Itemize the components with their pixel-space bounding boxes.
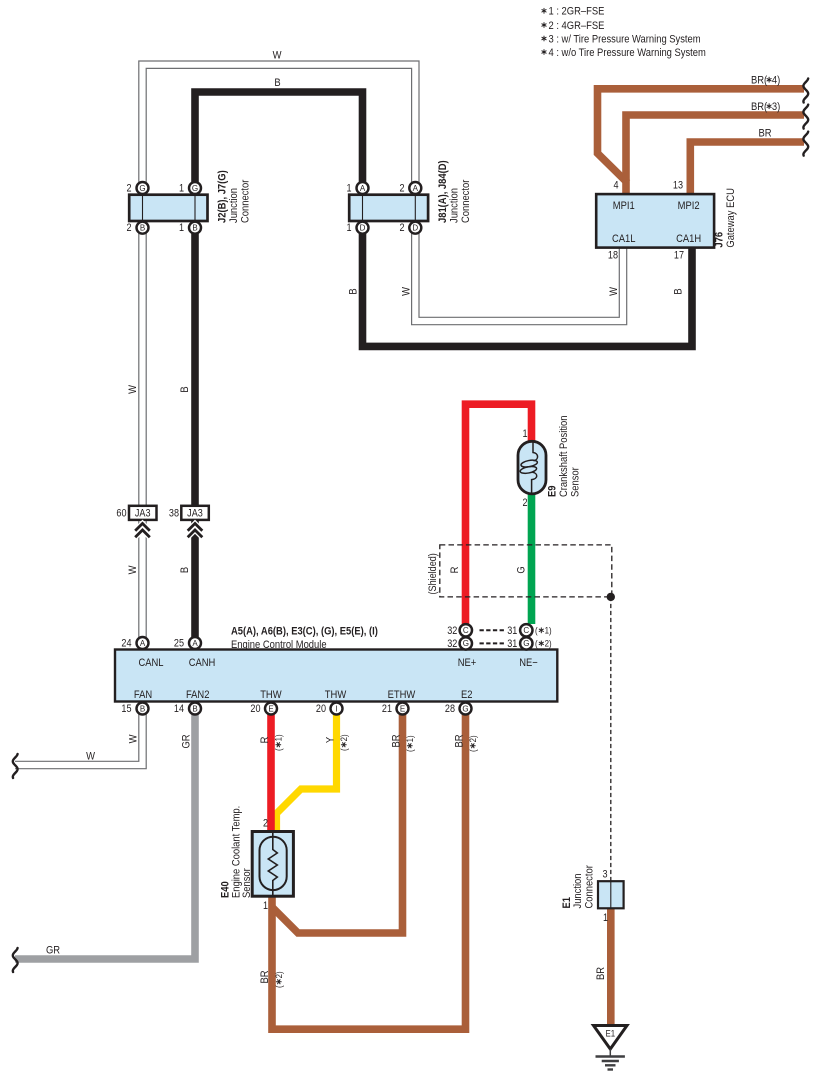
wire R (*1): ECM THW 20(E) down to E40 pin 2 xyxy=(267,711,275,833)
svg-text:B: B xyxy=(192,224,197,233)
junction connector J2(B), J7(G) box xyxy=(129,195,207,221)
svg-text:CA1H: CA1H xyxy=(676,233,701,245)
svg-text:W: W xyxy=(128,734,140,743)
svg-text:W: W xyxy=(127,565,139,574)
svg-text:3): 3) xyxy=(772,101,780,113)
svg-text:BR: BR xyxy=(391,734,403,747)
legend note 4 xyxy=(542,47,706,59)
break squiggle on BR xyxy=(803,132,808,156)
svg-text:Sensor: Sensor xyxy=(570,467,582,497)
svg-text:ETHW: ETHW xyxy=(388,689,416,701)
pin 2(G) J2 xyxy=(137,182,149,194)
svg-text:21: 21 xyxy=(382,703,393,715)
svg-text:2): 2) xyxy=(545,638,552,649)
svg-text:GR: GR xyxy=(181,734,193,748)
svg-text:2 : 4GR–FSE: 2 : 4GR–FSE xyxy=(549,20,605,32)
svg-text:3 : w/ Tire Pressure Warning S: 3 : w/ Tire Pressure Warning System xyxy=(549,34,701,46)
break squiggle on BR(*4) xyxy=(803,79,808,103)
svg-text:2): 2) xyxy=(338,734,349,741)
svg-text:4): 4) xyxy=(772,75,780,87)
label BR(*4) xyxy=(751,75,780,87)
svg-text:B: B xyxy=(348,288,360,294)
chevron on W wire below JA3 60 xyxy=(135,524,150,538)
svg-text:B: B xyxy=(673,288,685,294)
svg-text:Connector: Connector xyxy=(460,179,472,223)
svg-text:1): 1) xyxy=(273,734,284,741)
svg-text:BR(: BR( xyxy=(751,101,768,113)
svg-text:(: ( xyxy=(535,638,538,649)
svg-text:NE−: NE− xyxy=(519,657,538,669)
legend note 2 xyxy=(542,20,605,32)
svg-text:2: 2 xyxy=(399,222,404,234)
svg-text:13: 13 xyxy=(673,180,684,192)
svg-text:B: B xyxy=(274,77,280,89)
Gateway ECU J76 box xyxy=(596,194,714,248)
svg-text:1): 1) xyxy=(404,735,415,742)
svg-text:G: G xyxy=(192,184,198,193)
wire Y (*2): ECM THW 20(I) down to E40 pin 2 xyxy=(277,711,337,833)
svg-text:31: 31 xyxy=(507,638,518,650)
svg-text:W: W xyxy=(127,385,139,394)
svg-text:G: G xyxy=(516,566,528,573)
svg-text:24: 24 xyxy=(121,638,132,650)
svg-text:15: 15 xyxy=(121,703,132,715)
svg-text:28: 28 xyxy=(445,703,456,715)
break squiggle on GR left xyxy=(13,948,18,972)
pin 14(B) ECM FAN2 xyxy=(189,703,201,715)
svg-text:(: ( xyxy=(535,625,538,636)
dashes between NE pins row 2 xyxy=(480,642,505,644)
svg-text:E: E xyxy=(268,705,273,714)
shield junction dot xyxy=(607,593,615,601)
svg-text:(: ( xyxy=(467,749,478,752)
svg-text:R: R xyxy=(259,737,271,744)
chevron on B wire below JA3 38 xyxy=(188,524,203,538)
svg-text:2: 2 xyxy=(399,183,404,195)
svg-text:GR: GR xyxy=(46,945,60,957)
pin 31(C) ECM NE- xyxy=(520,624,532,636)
wire W inner white pass xyxy=(143,65,624,321)
svg-text:(Shielded): (Shielded) xyxy=(427,553,439,594)
svg-text:18: 18 xyxy=(608,250,619,262)
svg-text:J2(B), J7(G): J2(B), J7(G) xyxy=(217,170,229,223)
svg-text:1 : 2GR–FSE: 1 : 2GR–FSE xyxy=(549,6,605,18)
svg-text:E1: E1 xyxy=(605,1028,615,1039)
svg-text:Gateway ECU: Gateway ECU xyxy=(725,188,737,248)
svg-text:B: B xyxy=(179,386,191,392)
svg-text:CANH: CANH xyxy=(189,657,216,669)
wire W: J2 2(G) up over to J81 2(A) down to Gateway ECU CA1L (outline pass) xyxy=(143,65,624,321)
svg-text:2: 2 xyxy=(522,497,527,509)
pin 31(G) ECM NE- xyxy=(520,637,532,649)
pin 1(D) J81 xyxy=(357,222,369,234)
svg-text:Junction: Junction xyxy=(449,188,461,223)
svg-text:BR: BR xyxy=(454,734,466,747)
svg-text:4: 4 xyxy=(613,180,618,192)
pin 2(A) J81 xyxy=(409,182,421,194)
svg-text:1: 1 xyxy=(179,222,184,234)
wire W: J2 2(B) down to ECM CANL 24(A) (outline pass) xyxy=(138,224,147,646)
svg-text:2: 2 xyxy=(126,222,131,234)
svg-text:A: A xyxy=(360,184,366,193)
break squiggle on BR(*3) xyxy=(803,105,808,129)
E40 resistor zigzag xyxy=(268,832,277,897)
pin 20(E) ECM THW xyxy=(265,703,277,715)
svg-text:2: 2 xyxy=(126,183,131,195)
svg-text:D: D xyxy=(412,224,418,233)
wire BR (*1): ECM ETHW 21(E) down, left, diagonal to E40 pin 1 xyxy=(272,711,403,933)
svg-text:20: 20 xyxy=(250,703,261,715)
svg-text:Crankshaft Position: Crankshaft Position xyxy=(558,415,570,497)
svg-text:A: A xyxy=(192,639,198,648)
svg-text:W: W xyxy=(86,751,95,763)
label (*1) rotated THW wire xyxy=(273,734,284,751)
svg-text:E2: E2 xyxy=(461,689,473,701)
svg-text:Y: Y xyxy=(325,737,337,743)
svg-text:1: 1 xyxy=(179,183,184,195)
svg-text:THW: THW xyxy=(260,689,282,701)
svg-text:A: A xyxy=(413,184,419,193)
shield dashed drop wire to E1 junction connector pin 3 xyxy=(610,597,612,881)
svg-text:JA3: JA3 xyxy=(135,508,151,520)
svg-text:C: C xyxy=(463,626,469,635)
pin 32(G) ECM NE+ xyxy=(460,637,472,649)
svg-text:Connector: Connector xyxy=(240,179,252,223)
shield dashed box around R and G wires xyxy=(440,545,612,597)
wire GR: ECM FAN2 14(B) down and left to break xyxy=(15,711,195,959)
legend note 1 xyxy=(542,6,605,18)
svg-text:W: W xyxy=(401,287,413,296)
legend note 3 xyxy=(542,34,701,46)
label J76 Gateway ECU xyxy=(714,188,737,248)
svg-text:1: 1 xyxy=(263,900,268,912)
svg-text:2: 2 xyxy=(263,818,268,830)
svg-text:C: C xyxy=(523,626,529,635)
engine coolant temp sensor E40 box xyxy=(252,832,293,897)
pin 32(C) ECM NE+ xyxy=(460,624,472,636)
pin 1(B) J2 xyxy=(189,222,201,234)
svg-text:60: 60 xyxy=(116,508,127,520)
svg-text:32: 32 xyxy=(447,625,458,637)
wire BR (*2): E40 pin 1 down, right, up to ECM E2 28(G) xyxy=(272,711,466,1029)
Engine Control Module box xyxy=(115,650,557,702)
svg-text:31: 31 xyxy=(507,625,518,637)
pin 25(A) ECM CANH xyxy=(189,637,201,649)
label (*1) row1 xyxy=(535,625,552,636)
break squiggle on W left xyxy=(13,754,18,778)
svg-text:W: W xyxy=(273,50,282,62)
svg-text:14: 14 xyxy=(174,703,185,715)
label BR(*3) xyxy=(751,101,780,113)
svg-text:Junction: Junction xyxy=(228,188,240,223)
wire BR(*3): break at right to Gateway ECU MPI1 pin 4 xyxy=(626,115,804,196)
svg-text:17: 17 xyxy=(674,250,685,262)
ground symbol E1 xyxy=(594,1026,628,1070)
E40 inner capsule xyxy=(260,837,287,890)
dashes between NE+ pins row 1 xyxy=(480,629,505,631)
pin 24(A) ECM CANL xyxy=(137,637,149,649)
svg-text:CA1L: CA1L xyxy=(612,233,636,245)
svg-text:(: ( xyxy=(273,985,284,988)
svg-text:JA3: JA3 xyxy=(187,508,203,520)
label (*2) rotated E2 wire xyxy=(467,735,478,752)
label (*2) row2 xyxy=(535,638,552,649)
label (*2) rotated THW I wire xyxy=(338,734,349,751)
wire BR: E1 junction connector pin 1 down to ground E1 xyxy=(607,906,615,1027)
label E9 sensor name xyxy=(547,415,582,497)
pin 1(G) J2 xyxy=(189,182,201,194)
svg-text:38: 38 xyxy=(169,508,180,520)
junction connector J81(A), J84(D) box xyxy=(349,195,428,221)
label (*2) rotated lower E40 wire xyxy=(273,971,284,988)
svg-text:MPI1: MPI1 xyxy=(613,200,635,212)
svg-text:1: 1 xyxy=(346,183,351,195)
pin 20(I) ECM THW xyxy=(331,703,343,715)
label ECM title xyxy=(231,626,378,651)
label E40 sensor name xyxy=(220,806,253,898)
svg-text:R: R xyxy=(449,567,461,574)
svg-text:W: W xyxy=(608,287,620,296)
wire BR(*4): break at right to Gateway ECU MPI1 pin 4 xyxy=(598,89,805,183)
svg-text:Connector: Connector xyxy=(584,865,596,909)
pin 2(B) J2 xyxy=(137,222,149,234)
pin 1(A) J81 xyxy=(357,182,369,194)
wire B: J2 1(B) down to ECM CANH 25(A) xyxy=(191,224,199,646)
svg-text:1): 1) xyxy=(545,625,552,636)
label J2 connector name xyxy=(217,170,252,223)
svg-text:J76: J76 xyxy=(714,232,726,248)
svg-text:2): 2) xyxy=(467,735,478,742)
svg-text:2): 2) xyxy=(273,971,284,978)
pin 15(B) ECM FAN xyxy=(137,703,149,715)
svg-text:1: 1 xyxy=(346,222,351,234)
svg-text:(: ( xyxy=(404,749,415,752)
connector JA3 (60) box xyxy=(129,506,157,520)
label E1 connector name xyxy=(561,865,595,909)
svg-text:1: 1 xyxy=(522,428,527,440)
svg-text:20: 20 xyxy=(316,703,327,715)
svg-text:D: D xyxy=(360,224,366,233)
wire W: ECM FAN 15(B) down and left to break (outline pass) xyxy=(15,711,143,765)
svg-text:NE+: NE+ xyxy=(458,657,477,669)
svg-text:B: B xyxy=(140,705,145,714)
crankshaft position sensor E9 capsule xyxy=(518,441,546,494)
svg-text:3: 3 xyxy=(602,869,607,881)
svg-text:Sensor: Sensor xyxy=(241,868,253,898)
svg-text:G: G xyxy=(523,639,529,648)
wire W FAN inner white pass xyxy=(15,711,143,765)
svg-text:E9: E9 xyxy=(547,485,559,497)
wire BR: break at right to Gateway ECU MPI2 pin 13 xyxy=(690,142,804,196)
svg-text:32: 32 xyxy=(447,638,458,650)
wire G: E9 pin 2 down to ECM NE- xyxy=(528,492,536,624)
svg-text:Junction: Junction xyxy=(572,873,584,908)
svg-text:4 : w/o Tire Pressure Warning: 4 : w/o Tire Pressure Warning System xyxy=(549,47,706,59)
wire W: inner white pass xyxy=(139,224,145,646)
svg-text:B: B xyxy=(179,567,191,573)
svg-text:BR: BR xyxy=(759,128,772,140)
svg-text:G: G xyxy=(462,705,468,714)
svg-text:25: 25 xyxy=(174,638,185,650)
label J81 connector name xyxy=(437,160,472,223)
E9 coil symbol xyxy=(520,442,538,494)
svg-text:BR: BR xyxy=(259,970,271,983)
svg-text:CANL: CANL xyxy=(138,657,163,669)
wire R: ECM NE+ up over to crankshaft sensor E9 pin 1 xyxy=(466,404,532,624)
svg-text:BR: BR xyxy=(595,967,607,980)
svg-text:(: ( xyxy=(273,748,284,751)
svg-text:(: ( xyxy=(338,748,349,751)
svg-text:A5(A), A6(B), E3(C), (G), E5(E: A5(A), A6(B), E3(C), (G), E5(E), (I) xyxy=(231,626,378,638)
connector JA3 (38) box xyxy=(181,506,209,520)
pin 2(D) J81 xyxy=(409,222,421,234)
svg-text:FAN: FAN xyxy=(134,689,152,701)
svg-text:1: 1 xyxy=(603,912,608,924)
svg-text:J81(A), J84(D): J81(A), J84(D) xyxy=(437,160,449,223)
svg-text:G: G xyxy=(463,639,469,648)
label (*1) rotated ETHW wire xyxy=(404,735,415,752)
pin 28(G) ECM E2 xyxy=(460,703,472,715)
svg-text:A: A xyxy=(140,639,146,648)
svg-text:Engine Control Module: Engine Control Module xyxy=(231,639,327,651)
svg-text:BR(: BR( xyxy=(751,75,768,87)
svg-text:MPI2: MPI2 xyxy=(678,200,700,212)
pin 21(E) ECM ETHW xyxy=(397,703,409,715)
wire B: J2 1(G) up over to J81 1(A) down across to Gateway ECU CA1H xyxy=(195,92,692,346)
svg-text:B: B xyxy=(140,224,145,233)
svg-text:B: B xyxy=(192,705,197,714)
svg-text:G: G xyxy=(139,184,145,193)
junction connector E1 box xyxy=(598,881,624,908)
svg-text:THW: THW xyxy=(325,689,347,701)
svg-text:FAN2: FAN2 xyxy=(186,689,210,701)
svg-text:E: E xyxy=(400,705,405,714)
svg-text:I: I xyxy=(335,705,337,714)
